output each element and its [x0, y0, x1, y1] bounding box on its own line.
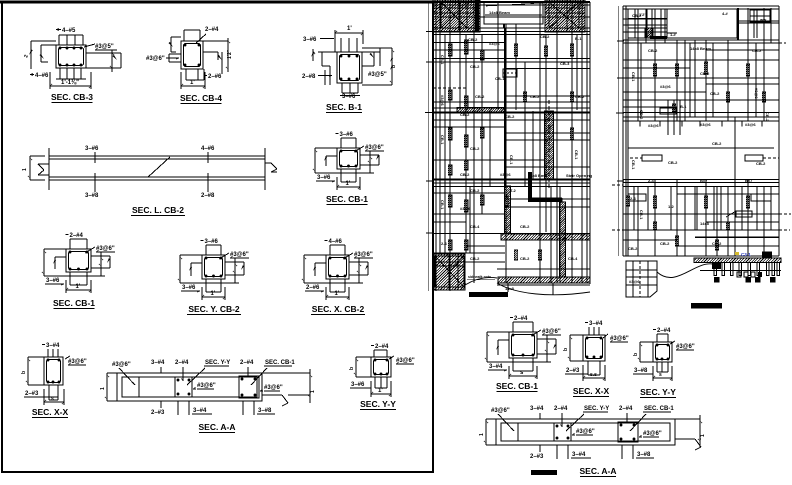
svg-text:CB-2: CB-2 [468, 37, 478, 42]
svg-text:CB-2: CB-2 [575, 94, 585, 99]
svg-text:4-#: 4-# [722, 11, 729, 16]
svg-text:#3@5": #3@5" [368, 72, 387, 78]
svg-text:#3@6": #3@6" [197, 383, 216, 389]
plan 2 left edge dimension ticks [616, 6, 624, 256]
svg-text:s: s [51, 396, 54, 402]
label SEC. X-X (bottom right) [573, 386, 610, 397]
svg-text:CB-1: CB-1 [495, 76, 505, 81]
framing plan 1 horizontal grid [433, 17, 590, 285]
svg-text:#3@6": #3@6" [491, 408, 510, 414]
svg-text:2–#4: 2–#4 [657, 328, 671, 334]
svg-text:#3@6": #3@6" [264, 385, 283, 391]
plan 2 right dashed extensions [612, 43, 791, 230]
svg-text:CB-2: CB-2 [530, 94, 540, 99]
svg-text:SEC. X. CB-2: SEC. X. CB-2 [312, 304, 365, 314]
label SEC. B-1 [326, 102, 362, 113]
svg-text:3–#6: 3–#6 [342, 94, 356, 100]
svg-text:14x8 Beam: 14x8 Beam [489, 10, 510, 15]
svg-text:2–#4: 2–#4 [175, 360, 189, 366]
svg-text:#3@6: #3@6 [460, 206, 471, 211]
svg-text:CB-4: CB-4 [470, 224, 480, 229]
plan 1 hatched band middle [501, 234, 590, 240]
svg-text:SEC. Y-Y: SEC. Y-Y [640, 387, 676, 397]
svg-text:#3@6": #3@6" [576, 429, 595, 435]
svg-text:CB-2: CB-2 [540, 34, 550, 39]
plan 1 bottom-left stair block [434, 254, 497, 290]
plan 1 hatched core top-left [433, 0, 480, 32]
plan 2 bottom-left stair block [626, 261, 657, 297]
svg-text:SEC. Y-Y: SEC. Y-Y [205, 360, 230, 366]
svg-text:#3@6: #3@6 [700, 122, 711, 127]
svg-text:CB-1: CB-1 [631, 160, 636, 170]
svg-text:#3@6: #3@6 [629, 279, 640, 284]
svg-text:2–#6: 2–#6 [208, 74, 222, 80]
svg-text:SEC. CB-1: SEC. CB-1 [326, 194, 368, 204]
plan 2 ground wave line [657, 264, 713, 278]
svg-text:1': 1' [190, 80, 195, 86]
plan 2 roof opening box top-middle [667, 9, 737, 38]
label SEC. A-A (left) [199, 422, 236, 433]
svg-text:CB-2: CB-2 [639, 110, 644, 120]
label SEC. CB-3 [51, 92, 93, 103]
framing plan 2 outline [623, 6, 779, 256]
svg-text:T-2: T-2 [510, 188, 517, 193]
svg-text:CB-2: CB-2 [470, 64, 480, 69]
beam section SEC. CB-1 (row 2) [313, 132, 384, 190]
label SEC. CB-1 (row 3) [53, 298, 95, 309]
svg-text:2–#3: 2–#3 [151, 410, 165, 416]
svg-text:#3@5": #3@5" [95, 44, 114, 50]
label SEC. CB-4 [180, 93, 222, 104]
plan 1 scale bar [469, 292, 508, 297]
svg-text:CB-2: CB-2 [460, 112, 470, 117]
svg-text:#3@6": #3@6" [68, 359, 87, 365]
svg-text:2–#4: 2–#4 [554, 406, 568, 412]
svg-text:4–#6: 4–#6 [35, 73, 49, 79]
svg-text:#3@6": #3@6" [676, 344, 695, 350]
svg-text:3–#8: 3–#8 [258, 408, 272, 414]
svg-text:3–#6: 3–#6 [317, 175, 331, 181]
svg-text:CB-1: CB-1 [440, 55, 445, 65]
svg-text:CB-2: CB-2 [712, 241, 722, 246]
plan 2 scale bar [691, 303, 722, 309]
svg-text:1: 1 [479, 433, 485, 436]
svg-text:B-1: B-1 [575, 36, 582, 41]
svg-text:CB-2: CB-2 [470, 146, 480, 151]
svg-text:1': 1' [76, 284, 81, 290]
svg-text:3–#6: 3–#6 [340, 132, 354, 138]
svg-text:CB-1: CB-1 [631, 72, 636, 82]
svg-text:CB-2: CB-2 [520, 224, 530, 229]
label SEC. Y-Y (bottom right) [640, 387, 676, 398]
svg-text:CB-1: CB-1 [440, 135, 445, 145]
svg-text:#3@6": #3@6" [542, 329, 561, 335]
label SEC. X. CB-2 [311, 304, 365, 315]
svg-text:#3@6": #3@6" [146, 56, 165, 62]
svg-text:3–#4: 3–#4 [530, 406, 544, 412]
svg-text:CB-3: CB-3 [560, 61, 570, 66]
svg-text:2–#4: 2–#4 [205, 27, 219, 33]
svg-text:B-1: B-1 [680, 104, 687, 109]
svg-text:3–#6: 3–#6 [205, 239, 219, 245]
svg-text:b: b [391, 65, 397, 68]
svg-text:ww: ww [759, 17, 767, 22]
svg-text:CB-2: CB-2 [505, 114, 515, 119]
plan 2 beam call-out boxes [628, 108, 779, 217]
framing plan 2 horizontal grid [623, 19, 779, 246]
svg-text:CB-2: CB-2 [752, 48, 762, 53]
svg-text:CB-2: CB-2 [765, 112, 770, 122]
svg-text:14x8 BmB: 14x8 BmB [528, 173, 547, 178]
plan 1 hatched core top-right [545, 0, 585, 32]
svg-text:SEC. CB-1: SEC. CB-1 [644, 406, 674, 412]
svg-text:#3@6: #3@6 [440, 95, 445, 106]
svg-text:CB-1: CB-1 [440, 200, 445, 210]
svg-text:sidewalk note: sidewalk note [468, 275, 491, 279]
svg-text:SEC. CB-4: SEC. CB-4 [180, 93, 222, 103]
svg-text:b: b [633, 353, 639, 356]
plan 2 top-left cell grid [628, 9, 667, 39]
beam section SEC. X-X (bottom right) [563, 321, 629, 381]
svg-text:2–#3: 2–#3 [566, 368, 580, 374]
plan 2 top-right cells [750, 9, 770, 38]
svg-text:B#7: B#7 [745, 178, 753, 183]
longitudinal beam SEC. A-A (left) [100, 360, 316, 416]
svg-text:#3@6: #3@6 [754, 88, 759, 99]
svg-text:1': 1' [347, 26, 352, 32]
svg-text:SEC. CB-1: SEC. CB-1 [496, 381, 538, 391]
framing plan 2 vertical grid [628, 8, 771, 256]
svg-text:2-4: 2-4 [648, 178, 655, 183]
svg-text:SEC. X-X: SEC. X-X [573, 386, 610, 396]
svg-text:CB-1: CB-1 [509, 155, 514, 165]
plan 1 hatched wall strip below T [505, 186, 511, 233]
beam section SEC. CB-3 [23, 28, 121, 89]
plan 2 wall comb posts [700, 263, 781, 283]
svg-text:1-2: 1-2 [668, 204, 675, 209]
svg-text:#3@6": #3@6" [396, 358, 415, 364]
framing plan 1 vertical grid [436, 2, 587, 291]
svg-text:CB-2: CB-2 [668, 160, 678, 165]
svg-text:SEC. CB-1: SEC. CB-1 [265, 360, 295, 366]
svg-text:CB-2: CB-2 [660, 241, 670, 246]
svg-text:14x8: 14x8 [700, 221, 710, 226]
svg-text:SEC. L. CB-2: SEC. L. CB-2 [132, 205, 184, 215]
svg-text:2-4: 2-4 [441, 241, 448, 246]
svg-text:2–#8: 2–#8 [302, 74, 316, 80]
label SEC. X-X (left) [32, 407, 69, 418]
svg-text:1'2": 1'2" [227, 49, 233, 59]
svg-text:C3-1: C3-1 [741, 252, 751, 257]
beam section SEC. Y-Y (left) [349, 344, 415, 397]
svg-text:#3@6": #3@6" [230, 252, 249, 258]
beam section SEC. Y. CB-2 [178, 239, 249, 300]
svg-text:CB-2: CB-2 [710, 91, 720, 96]
svg-text:3–#6: 3–#6 [351, 382, 365, 388]
svg-text:4–#6: 4–#6 [201, 146, 215, 152]
svg-text:2–#4: 2–#4 [70, 233, 84, 239]
svg-text:1: 1 [700, 434, 706, 437]
svg-text:CB-4: CB-4 [568, 256, 578, 261]
svg-text:2–#3: 2–#3 [25, 391, 39, 397]
plan 1 thick beam mark [528, 172, 562, 202]
svg-text:SEC. X-X: SEC. X-X [32, 407, 69, 417]
plan 1 hatched beam band left-middle [457, 108, 505, 114]
beam section SEC. CB-1 (row 3) [42, 233, 115, 293]
svg-text:3–#8: 3–#8 [85, 193, 99, 199]
plan 1 roof opening box top-middle [484, 2, 560, 28]
label SEC. L. CB-2 [131, 205, 185, 216]
svg-text:2–#8: 2–#8 [201, 193, 215, 199]
drawing sheet border [0, 2, 433, 472]
label SEC. Y. CB-2 [187, 304, 241, 315]
plan 2 hatched band bottom [694, 237, 781, 263]
plan 1 annotations [440, 34, 593, 291]
svg-text:#3@6: #3@6 [660, 84, 671, 89]
svg-text:CB-2: CB-2 [628, 246, 638, 251]
svg-text:CB-2: CB-2 [756, 161, 766, 166]
longitudinal beam SEC. L. CB-2 [22, 146, 277, 199]
svg-text:#3@6": #3@6" [112, 362, 131, 368]
beam section SEC. CB-1 (bottom right) [485, 316, 561, 379]
plan 1 hatched column strip bottom-right [560, 202, 566, 277]
svg-text:b: b [563, 348, 569, 351]
svg-text:CB-2: CB-2 [700, 71, 710, 76]
svg-text:SEC. Y-Y: SEC. Y-Y [584, 406, 609, 412]
svg-text:3–#8: 3–#8 [637, 452, 651, 458]
plan 1 bottom sweep wave [497, 283, 590, 295]
svg-text:3–#6: 3–#6 [85, 146, 99, 152]
svg-text:3–#4: 3–#4 [193, 408, 207, 414]
svg-text:3–#6: 3–#6 [303, 37, 317, 43]
svg-text:#3@6: #3@6 [500, 172, 511, 177]
plan 1 column marks [448, 40, 574, 260]
svg-text:#3@6: #3@6 [745, 122, 756, 127]
svg-text:4–#5: 4–#5 [62, 28, 76, 34]
label SEC. CB-1 (bottom right) [496, 381, 538, 392]
svg-text:1': 1' [211, 291, 216, 297]
svg-text:#3@6": #3@6" [365, 145, 384, 151]
svg-text:SEC. CB-3: SEC. CB-3 [51, 92, 93, 102]
framing plan 1 outline [433, 2, 590, 291]
longitudinal beam SEC. A-A (bottom right) [479, 406, 706, 460]
beam section SEC. X-X (left) [21, 343, 87, 405]
svg-text:CB-2: CB-2 [648, 48, 658, 53]
plan 1 left edge dimension ticks [425, 2, 434, 291]
svg-text:3–#4: 3–#4 [572, 452, 586, 458]
svg-text:1'-1⅜": 1'-1⅜" [61, 80, 79, 86]
plan 1 hatched band bottom [498, 277, 590, 283]
svg-text:4–#6: 4–#6 [329, 239, 343, 245]
svg-text:3–#8: 3–#8 [634, 368, 648, 374]
label SEC. A-A (bottom right) with scale bar [531, 466, 617, 477]
svg-text:3–#6: 3–#6 [182, 285, 196, 291]
plan 1 hatched column strip right-middle [545, 100, 554, 190]
svg-text:CB-2: CB-2 [712, 141, 722, 146]
label SEC. Y-Y (left) [360, 399, 396, 410]
svg-text:CB-2: CB-2 [520, 256, 530, 261]
svg-text:1: 1 [100, 387, 106, 390]
plan 2 room edge ticks [640, 121, 762, 127]
svg-text:CB-1: CB-1 [639, 210, 644, 220]
label SEC. CB-1 (row 2) [326, 194, 368, 205]
svg-text:SEC. CB-1: SEC. CB-1 [53, 298, 95, 308]
svg-text:3–#4: 3–#4 [46, 343, 60, 349]
svg-text:1: 1 [22, 168, 28, 171]
svg-text:SEC. B-1: SEC. B-1 [326, 102, 362, 112]
svg-text:CB-1: CB-1 [547, 125, 552, 135]
svg-text:1-#: 1-# [670, 32, 677, 37]
svg-text:1': 1' [378, 388, 383, 394]
svg-text:CB-2: CB-2 [470, 188, 480, 193]
svg-text:2–#4: 2–#4 [619, 406, 633, 412]
svg-text:3–#6: 3–#6 [46, 278, 60, 284]
svg-text:SEC. A-A: SEC. A-A [580, 466, 617, 476]
svg-text:1': 1' [346, 181, 351, 187]
svg-text:3–#4: 3–#4 [489, 364, 503, 370]
svg-text:CB-2: CB-2 [475, 94, 485, 99]
svg-text:SEC. A-A: SEC. A-A [199, 422, 236, 432]
svg-text:#3@6": #3@6" [354, 252, 373, 258]
svg-text:14x8: 14x8 [505, 286, 515, 291]
svg-text:2-4: 2-4 [630, 196, 637, 201]
plan 2 annotations [628, 13, 770, 251]
svg-text:CB-2: CB-2 [470, 256, 480, 261]
beam section SEC. Y-Y (bottom right) [633, 328, 695, 381]
svg-text:2–#6: 2–#6 [306, 285, 320, 291]
svg-text:1: 1 [310, 390, 316, 393]
svg-text:CB-2: CB-2 [460, 172, 470, 177]
beam section SEC. CB-4 [146, 27, 233, 89]
svg-text:s: s [659, 372, 662, 378]
svg-text:1': 1' [335, 291, 340, 297]
svg-text:Stair Opening: Stair Opening [566, 173, 593, 178]
svg-text:2–#4: 2–#4 [240, 360, 254, 366]
svg-text:2–#4: 2–#4 [514, 316, 528, 322]
beam section SEC. X. CB-2 [302, 239, 373, 300]
svg-text:#3@6: #3@6 [648, 123, 659, 128]
svg-text:#3@6: #3@6 [489, 41, 500, 46]
svg-text:B#7: B#7 [700, 178, 708, 183]
svg-text:#3@6": #3@6" [96, 246, 115, 252]
svg-text:3–#4: 3–#4 [151, 360, 165, 366]
svg-text:14x8 Beam: 14x8 Beam [690, 46, 711, 51]
svg-text:#3@6": #3@6" [643, 431, 662, 437]
svg-text:2–#4: 2–#4 [375, 344, 389, 350]
svg-text:SEC. Y-Y: SEC. Y-Y [360, 399, 396, 409]
plan 1 heavy wall line with dashed opening [503, 28, 517, 186]
svg-text:CB-1: CB-1 [574, 150, 579, 160]
svg-text:CB-2: CB-2 [632, 13, 642, 18]
beam section SEC. B-1 [302, 26, 397, 100]
svg-text:b: b [349, 367, 355, 370]
svg-text:#3@6": #3@6" [610, 336, 629, 342]
svg-text:2–#3: 2–#3 [530, 454, 544, 460]
svg-text:SEC. Y. CB-2: SEC. Y. CB-2 [188, 304, 240, 314]
svg-text:s.s: s.s [590, 372, 597, 378]
plan 2 column marks [626, 62, 766, 250]
svg-text:3–#4: 3–#4 [589, 321, 603, 327]
svg-text:b: b [21, 371, 27, 374]
